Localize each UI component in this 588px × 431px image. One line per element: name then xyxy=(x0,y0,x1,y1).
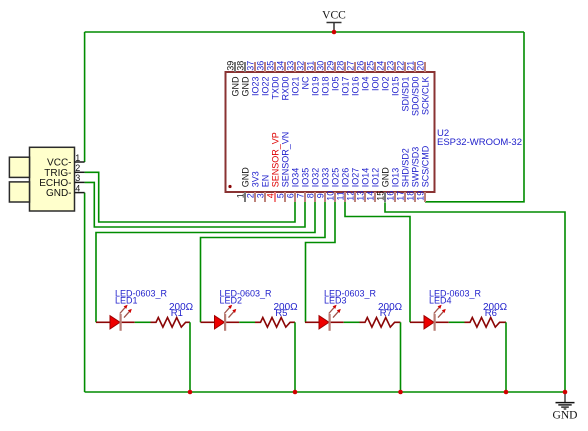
U2 pin 6 (IO34) bottom xyxy=(286,168,301,202)
power symbol VCC xyxy=(322,10,346,32)
sensor pin 1 (VCC) xyxy=(47,153,85,169)
svg-text:13: 13 xyxy=(356,191,366,201)
svg-text:R1: R1 xyxy=(171,308,183,319)
LED LED4 (LED-0603_R) xyxy=(410,305,449,331)
svg-text:IO32: IO32 xyxy=(310,168,320,188)
svg-text:2: 2 xyxy=(75,163,80,173)
svg-text:3V3: 3V3 xyxy=(250,171,260,187)
svg-text:IO27: IO27 xyxy=(350,168,360,188)
wire sensor GND drop xyxy=(84,193,86,392)
LED LED3 (LED-0603_R) xyxy=(305,305,344,331)
svg-text:SCK/CLK: SCK/CLK xyxy=(420,77,430,116)
U2 pin 5 (SENSOR_VN) bottom xyxy=(276,132,291,202)
svg-text:IO12: IO12 xyxy=(370,168,380,188)
svg-text:12: 12 xyxy=(346,191,356,201)
svg-text:11: 11 xyxy=(336,191,346,200)
wire U2 pin 10 to LED3 anode xyxy=(306,202,336,322)
U2 pin 35 (TXD0) top xyxy=(266,61,281,100)
svg-text:GND-: GND- xyxy=(46,188,72,199)
U2 pin 4 (SENSOR_VP) bottom xyxy=(266,132,281,202)
svg-text:20: 20 xyxy=(416,61,426,71)
svg-text:LED2: LED2 xyxy=(220,295,243,305)
wire resistor R1 to ground rail xyxy=(189,322,191,392)
svg-text:IO16: IO16 xyxy=(350,77,360,97)
wire resistor R6 to ground rail xyxy=(505,322,507,392)
svg-text:IO33: IO33 xyxy=(320,168,330,188)
U2 pin 24 (IO2) top xyxy=(376,61,391,91)
U2 pin 34 (RXD0) top xyxy=(276,61,291,101)
svg-text:IO26: IO26 xyxy=(340,168,350,188)
U2 pin 9 (IO33) bottom xyxy=(316,168,331,202)
svg-text:IO2: IO2 xyxy=(380,77,390,92)
U2 pin 32 (NC) top xyxy=(296,61,311,90)
U2 pin 26 (IO4) top xyxy=(356,61,371,91)
LED LED1 (LED-0603_R) xyxy=(96,305,135,331)
wire LED LED1 cathode to resistor R1 xyxy=(135,321,151,323)
svg-text:25: 25 xyxy=(366,61,376,71)
svg-text:16: 16 xyxy=(386,191,396,201)
svg-text:26: 26 xyxy=(356,61,366,71)
svg-text:SENSOR_VN: SENSOR_VN xyxy=(280,132,290,188)
svg-text:1: 1 xyxy=(75,153,80,163)
U2 pin 14 (IO12) bottom xyxy=(366,168,381,202)
wire U2 pin 8 to LED1 anode xyxy=(96,202,315,322)
U2 pin 29 (IO5) top xyxy=(326,61,341,91)
wire U2 pin 15 GND to ground xyxy=(385,202,565,392)
svg-text:1: 1 xyxy=(236,193,246,198)
svg-text:8: 8 xyxy=(306,193,316,198)
svg-text:27: 27 xyxy=(346,61,356,71)
junction at 190,392 xyxy=(188,390,193,395)
svg-text:IO21: IO21 xyxy=(290,77,300,97)
svg-text:SENSOR_VP: SENSOR_VP xyxy=(270,132,280,187)
svg-text:6: 6 xyxy=(286,193,296,198)
resistor R6 200ohm xyxy=(465,318,507,328)
U2 pin 33 (IO21) top xyxy=(286,61,301,96)
svg-text:IO18: IO18 xyxy=(320,77,330,97)
wire resistor R5 to ground rail xyxy=(294,322,296,392)
svg-text:LED3: LED3 xyxy=(324,295,347,305)
sensor pin 2 (TRIG) xyxy=(44,163,84,179)
U2 pin 1 marker dot xyxy=(228,185,231,188)
svg-text:36: 36 xyxy=(256,61,266,71)
svg-text:38: 38 xyxy=(236,61,246,71)
wire resistor R7 to ground rail xyxy=(400,322,402,392)
U2 pin 3 (EN) bottom xyxy=(256,175,271,202)
junction at 295,392 xyxy=(293,390,298,395)
svg-text:GND: GND xyxy=(553,409,578,421)
wire TRIG to U2 pin 6 xyxy=(85,172,295,222)
svg-text:R7: R7 xyxy=(380,308,392,319)
svg-text:7: 7 xyxy=(296,193,306,198)
svg-text:34: 34 xyxy=(276,61,286,71)
svg-text:IO4: IO4 xyxy=(360,77,370,92)
junction at 334,32 xyxy=(332,30,337,35)
svg-text:23: 23 xyxy=(386,61,396,71)
U2 pin 36 (IO22) top xyxy=(256,61,271,96)
U2 pin 22 (SDI/SD1) top xyxy=(396,61,411,112)
U2 pin 12 (IO27) bottom xyxy=(346,168,361,202)
svg-text:R5: R5 xyxy=(275,308,287,319)
svg-text:28: 28 xyxy=(336,61,346,71)
svg-text:EN: EN xyxy=(260,175,270,188)
svg-text:IO19: IO19 xyxy=(310,77,320,97)
svg-text:IO23: IO23 xyxy=(250,77,260,97)
resistor R5 200ohm xyxy=(255,318,295,328)
svg-text:19: 19 xyxy=(416,191,426,201)
sensor transducer box lower xyxy=(9,182,29,202)
ultrasonic sensor module body xyxy=(30,147,75,211)
svg-text:4: 4 xyxy=(266,193,276,198)
svg-text:17: 17 xyxy=(396,191,406,201)
U2 pin 39 (GND) top xyxy=(226,61,241,97)
svg-text:31: 31 xyxy=(306,61,316,71)
U2 pin 17 (SHD/SD2) bottom xyxy=(396,148,411,202)
svg-text:4: 4 xyxy=(75,183,80,193)
ground symbol GND xyxy=(553,392,578,421)
U2 pin 21 (SDO/SD0) top xyxy=(406,61,421,116)
U2 pin 19 (SCS/CMD) bottom xyxy=(416,145,431,202)
U2 pin 1 (GND) bottom xyxy=(236,167,251,202)
svg-text:IO13: IO13 xyxy=(390,168,400,188)
svg-text:22: 22 xyxy=(396,61,406,71)
svg-text:37: 37 xyxy=(246,61,256,71)
wire LED LED3 cathode to resistor R7 xyxy=(344,321,360,323)
junction at 506,392 xyxy=(504,390,509,395)
U2 pin 16 (IO13) bottom xyxy=(386,168,401,202)
resistor R7 200ohm xyxy=(360,318,401,328)
U2 pin 10 (IO25) bottom xyxy=(326,168,341,202)
svg-text:SCS/CMD: SCS/CMD xyxy=(420,145,430,187)
svg-text:R6: R6 xyxy=(485,308,497,319)
svg-text:10: 10 xyxy=(326,191,336,201)
U2 pin 27 (IO16) top xyxy=(346,61,361,96)
svg-text:RXD0: RXD0 xyxy=(280,77,290,101)
U2 pin 38 (GND) top xyxy=(236,61,251,97)
wire U2 pin 9 to LED2 anode xyxy=(201,202,326,322)
svg-text:GND: GND xyxy=(230,76,240,97)
svg-text:15: 15 xyxy=(376,191,386,201)
wire ECHO to U2 pin 7 xyxy=(85,182,305,227)
sensor pin 4 (GND) xyxy=(46,183,85,199)
svg-text:29: 29 xyxy=(326,61,336,71)
svg-text:SDI/SD1: SDI/SD1 xyxy=(400,77,410,112)
svg-text:IO14: IO14 xyxy=(360,168,370,188)
svg-text:32: 32 xyxy=(296,61,306,71)
svg-text:GND: GND xyxy=(380,167,390,188)
svg-text:LED4: LED4 xyxy=(429,295,452,305)
svg-text:ESP32-WROOM-32: ESP32-WROOM-32 xyxy=(437,137,522,148)
sensor transducer box upper xyxy=(9,157,29,177)
svg-text:IO25: IO25 xyxy=(330,168,340,188)
svg-text:SDO/SD0: SDO/SD0 xyxy=(410,77,420,117)
sensor pin 3 (ECHO) xyxy=(39,173,84,189)
svg-text:TXD0: TXD0 xyxy=(270,77,280,100)
U2 pin 31 (IO19) top xyxy=(306,61,321,96)
svg-text:3: 3 xyxy=(256,193,266,198)
wire VCC drop to sensor pin 1 xyxy=(84,32,86,162)
wire LED LED2 cathode to resistor R5 xyxy=(239,321,255,323)
U2 pin 20 (SCK/CLK) top xyxy=(416,61,431,115)
svg-text:30: 30 xyxy=(316,61,326,71)
wire GND bottom rail xyxy=(85,391,565,393)
svg-text:14: 14 xyxy=(366,191,376,201)
U2 pin 23 (IO15) top xyxy=(386,61,401,96)
U2 pin 25 (IO0) top xyxy=(366,61,381,91)
U2 pin 15 (GND) bottom xyxy=(376,167,391,202)
svg-text:9: 9 xyxy=(316,193,326,198)
junction at 565,392 xyxy=(563,390,568,395)
svg-text:33: 33 xyxy=(286,61,296,71)
svg-text:IO34: IO34 xyxy=(290,168,300,188)
svg-text:IO17: IO17 xyxy=(340,77,350,97)
svg-text:IO15: IO15 xyxy=(390,77,400,97)
svg-text:SWP/SD3: SWP/SD3 xyxy=(410,147,420,188)
U2 pin 11 (IO26) bottom xyxy=(336,168,351,202)
wire U2 pin 11 to LED4 anode xyxy=(345,202,410,322)
wire VCC drop to U2 pin 19 xyxy=(425,32,524,202)
svg-text:21: 21 xyxy=(406,61,416,71)
U2 pin 28 (IO17) top xyxy=(336,61,351,96)
svg-text:5: 5 xyxy=(276,193,286,198)
U2 pin 30 (IO18) top xyxy=(316,61,331,96)
IC U2 ESP32-WROOM-32 body xyxy=(226,72,435,192)
U2 pin 37 (IO23) top xyxy=(246,61,261,96)
wire LED LED4 cathode to resistor R6 xyxy=(449,321,465,323)
svg-text:IO22: IO22 xyxy=(260,77,270,97)
svg-text:2: 2 xyxy=(246,193,256,198)
junction at 400.5,392 xyxy=(398,390,403,395)
wire VCC top rail xyxy=(85,31,524,33)
svg-text:24: 24 xyxy=(376,61,386,71)
svg-text:GND: GND xyxy=(240,76,250,97)
svg-text:VCC: VCC xyxy=(322,10,346,22)
U2 pin 13 (IO14) bottom xyxy=(356,168,371,202)
U2 pin 2 (3V3) bottom xyxy=(246,171,261,202)
svg-text:SHD/SD2: SHD/SD2 xyxy=(400,148,410,187)
resistor R1 200ohm xyxy=(151,318,191,328)
U2 pin 7 (IO35) bottom xyxy=(296,168,311,202)
svg-text:NC: NC xyxy=(300,76,310,89)
LED LED2 (LED-0603_R) xyxy=(201,305,240,331)
svg-text:GND: GND xyxy=(240,167,250,188)
U2 pin 8 (IO32) bottom xyxy=(306,168,321,202)
svg-text:IO35: IO35 xyxy=(300,168,310,188)
svg-text:35: 35 xyxy=(266,61,276,71)
svg-text:IO5: IO5 xyxy=(330,77,340,92)
svg-text:18: 18 xyxy=(406,191,416,201)
U2 pin 18 (SWP/SD3) bottom xyxy=(406,147,421,202)
svg-text:39: 39 xyxy=(226,61,236,71)
svg-text:LED1: LED1 xyxy=(115,295,138,305)
svg-text:3: 3 xyxy=(75,173,80,183)
svg-text:IO0: IO0 xyxy=(370,77,380,92)
